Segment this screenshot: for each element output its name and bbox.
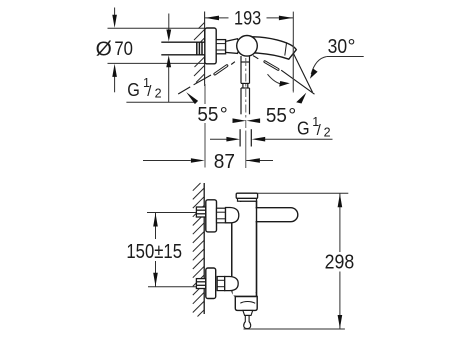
G 1/2 leader underline (left): [126, 101, 196, 103]
svg-text:55: 55: [197, 104, 218, 126]
mousseur tube: [244, 315, 251, 328]
svg-text:°: °: [220, 104, 228, 126]
87 extension line / centre line continuation: [245, 131, 247, 168]
outlet nozzle: [243, 310, 253, 315]
G1/2 outlet nipple (top view): [239, 129, 241, 146]
lower supply stub: [196, 279, 205, 289]
faucet body (side view): [232, 201, 257, 297]
escutcheon (top view, edge-on): [205, 28, 216, 64]
S-union cone (top view): [226, 39, 240, 54]
Ø70 dimension: [108, 8, 205, 93]
wall line (side view): [203, 183, 205, 314]
svg-text:G: G: [127, 80, 140, 100]
svg-text:°: °: [348, 36, 356, 58]
upper supply stub: [196, 207, 205, 217]
handle lever (side view): [253, 208, 298, 222]
supply pipe G1/2 (top view): [161, 42, 204, 56]
wall hatch (top view): [194, 23, 205, 83]
svg-text:298: 298: [325, 252, 355, 274]
193 arrows: [205, 16, 219, 21]
30° reference line from spout tip: [293, 53, 312, 93]
centre line of outlet (top view): [245, 58, 247, 131]
87 dimension: [143, 160, 273, 162]
outlet tube below valve (top view): [241, 56, 250, 114]
193 dimension: [205, 12, 294, 91]
spout tip vertical reference line: [292, 40, 294, 93]
hex nut (top view): [216, 40, 225, 54]
cap on top of body: [236, 193, 257, 198]
55° angle arcs to centre (bottom meeting arrows): [233, 118, 247, 123]
150±15 dimension: [147, 213, 196, 287]
30° angle arrowhead lower: [296, 93, 306, 104]
lower hex nut (side view): [217, 277, 225, 291]
outlet G1/2 dimension (pair of inward arrows): [210, 138, 333, 140]
pipe thread ticks: [196, 42, 198, 56]
svg-text:87: 87: [214, 151, 235, 173]
55° label (left): [195, 104, 231, 123]
left 55° arc arrowhead: [186, 92, 198, 104]
svg-text:150±15: 150±15: [126, 240, 182, 263]
right handle swing line 55° (phantom): [253, 56, 314, 95]
87 left extension line (wall plane): [204, 84, 206, 168]
left handle swing line 55° (phantom): [178, 62, 235, 94]
upper escutcheon (side view): [206, 200, 217, 232]
wall line (top view): [204, 12, 206, 87]
spout (top view): [252, 37, 297, 59]
body taper shoulder line: [237, 292, 257, 294]
298 dimension: [244, 193, 349, 329]
spout outlet face line: [285, 42, 287, 55]
svg-text:°: °: [288, 105, 296, 127]
lower union ball (side view): [225, 277, 239, 291]
svg-text:30: 30: [328, 36, 348, 58]
svg-text:55: 55: [266, 105, 287, 127]
svg-text:G: G: [297, 119, 310, 139]
svg-text:70: 70: [114, 38, 133, 60]
lower escutcheon (side view): [206, 268, 216, 299]
svg-text:2: 2: [155, 86, 162, 100]
upper union ball (side view): [226, 208, 239, 223]
right 55° arc with arrowhead: [268, 74, 284, 84]
wall hatch (side view): [193, 183, 204, 317]
upper hex nut (side view): [217, 208, 226, 223]
svg-text:193: 193: [234, 7, 261, 29]
svg-text:2: 2: [324, 125, 331, 139]
body over handle root: [233, 202, 256, 296]
pipe diameter dimension (G1/2 supply): [168, 14, 170, 103]
svg-text:Ø: Ø: [96, 37, 112, 60]
valve body circle (top view): [237, 36, 258, 57]
outlet block (check valve housing): [235, 297, 257, 311]
outlet block inner line: [240, 301, 255, 303]
